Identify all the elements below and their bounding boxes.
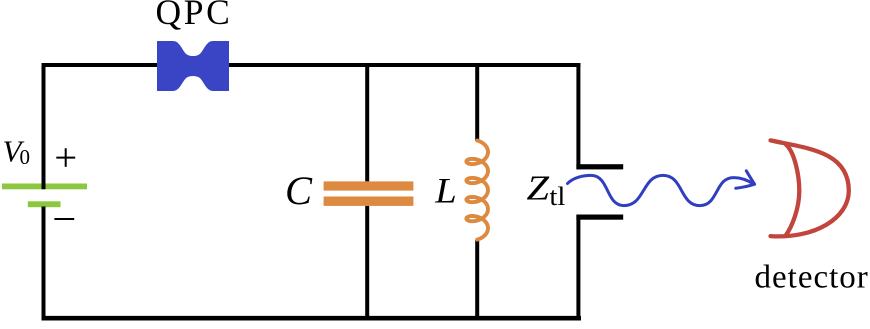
transmission line bottom plate <box>576 215 623 220</box>
wire inductor branch upper <box>475 63 479 141</box>
wire left lower <box>42 207 46 321</box>
detector crescent inner arc <box>786 145 800 236</box>
wire left upper <box>42 63 46 189</box>
capacitor C bottom plate <box>324 197 414 206</box>
wire top <box>42 63 581 67</box>
svg-text:tl: tl <box>549 182 565 211</box>
wire inductor branch lower <box>475 240 479 320</box>
battery short plate (-) <box>28 201 61 207</box>
svg-text:Z: Z <box>527 170 550 208</box>
photon wavy arrow <box>568 175 755 205</box>
svg-text:detector: detector <box>755 260 869 296</box>
wire capacitor branch lower <box>365 206 369 320</box>
photon arrowhead <box>736 171 755 188</box>
wire capacitor branch upper <box>365 63 369 181</box>
battery plus sign <box>56 148 75 167</box>
capacitor C top plate <box>324 181 414 190</box>
svg-text:0: 0 <box>20 145 31 169</box>
QPC constriction <box>157 41 229 91</box>
battery long plate (+) <box>2 184 87 190</box>
wire right branch lower <box>576 215 580 321</box>
wire right branch upper <box>576 63 580 169</box>
svg-text:L: L <box>434 171 457 211</box>
transmission line top plate <box>576 164 623 169</box>
detector crescent outer bowl <box>771 140 849 236</box>
battery minus sign <box>54 218 74 220</box>
svg-text:QPC: QPC <box>156 0 233 32</box>
wire bottom <box>42 316 582 321</box>
inductor L coil <box>466 141 488 240</box>
svg-text:C: C <box>285 168 313 213</box>
